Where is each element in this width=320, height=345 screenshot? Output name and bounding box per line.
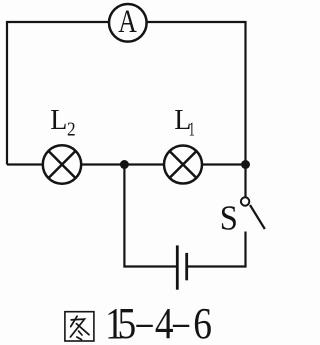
svg-text:S: S <box>220 200 238 238</box>
svg-text:1: 1 <box>189 117 195 140</box>
svg-text:2: 2 <box>67 118 76 141</box>
svg-text:4: 4 <box>155 298 174 345</box>
svg-text:5: 5 <box>118 298 137 345</box>
svg-text:–: – <box>172 297 189 345</box>
svg-text:6: 6 <box>193 298 212 345</box>
svg-text:–: – <box>136 297 153 345</box>
svg-text:A: A <box>118 4 137 40</box>
svg-text:L: L <box>50 105 67 136</box>
